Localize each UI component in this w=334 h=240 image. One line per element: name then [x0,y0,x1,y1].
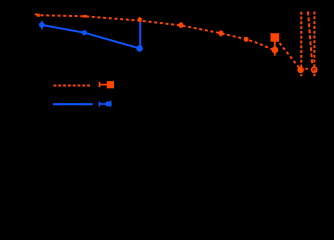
orange small error bar at point x=221 [220,30,222,36]
orange dashed series connecting line [35,14,275,51]
orange dashed error bar at x=300.8 [300,12,302,77]
legend blue errorbar horizontal line [100,103,111,105]
orange short dash between bottom circles [305,68,308,70]
blue solid series connecting line [42,25,140,49]
blue circle marker P2 [82,30,87,35]
orange vertical bar under big square [274,41,276,56]
legend blue circle marker [105,101,110,106]
orange open ring marker bottom right [312,67,317,72]
orange small square marker P6 [244,37,248,41]
legend orange errorbar horizontal line [100,84,108,86]
orange small error bar at point x=181 [180,22,182,28]
orange small square marker P4 [179,23,183,27]
orange filled circle marker below big square [272,47,279,54]
blue circle marker P1 [39,22,45,28]
legend blue errorbar left cap [99,102,101,107]
orange small square marker P5 [219,31,223,35]
orange small square marker P2 [83,15,87,18]
orange big square marker [271,33,280,42]
legend blue errorbar right cap [110,101,112,107]
orange small error bar at point x=139.7 [139,17,141,23]
orange small square marker P3 [138,18,142,22]
blue long error bar at P3 [139,22,141,50]
blue error bar at P1 [41,21,43,30]
blue circle marker P3 [136,45,143,52]
orange steep dashed segment near right [308,11,312,65]
legend orange big square marker [107,81,114,88]
orange small error bar at point x=246 [245,37,247,42]
legend blue solid line sample [53,103,93,105]
orange filled circle marker bottom left of pair [297,67,304,74]
legend orange errorbar left cap [99,82,101,87]
orange dashed segment square-to-circle diagonal [276,39,301,70]
orange dashed error bar at x=314 [313,12,315,77]
legend orange dashed line sample [54,85,92,87]
orange small square marker P1 [37,14,40,17]
